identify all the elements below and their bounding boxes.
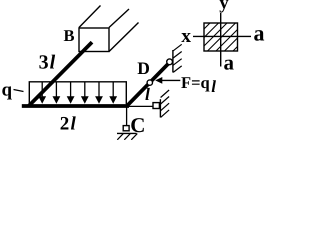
load arrow 5 xyxy=(95,82,103,104)
ground hatch 1 xyxy=(117,134,123,140)
distributed load q outline xyxy=(29,82,126,104)
force F arrowhead xyxy=(155,77,162,84)
ground hatch 2 xyxy=(124,134,130,140)
ground hatch 3 xyxy=(131,134,137,140)
upper wall hatch 1 xyxy=(173,44,182,51)
svg-text:x: x xyxy=(181,26,191,47)
box B perspective line top-left xyxy=(79,6,101,28)
lower wall hatch 3 xyxy=(161,103,170,111)
upper wall line xyxy=(172,50,174,73)
pin circle at upper wall xyxy=(167,59,173,65)
upper wall hatch 3 xyxy=(173,59,182,65)
cross-section square xyxy=(177,14,270,56)
x axis line xyxy=(193,35,251,37)
pin square on tie rod xyxy=(153,103,159,109)
lower wall hatch 1 xyxy=(161,90,170,98)
lower wall hatch 2 xyxy=(161,97,170,105)
upper wall hatch 4 xyxy=(173,66,182,73)
load arrow 6 xyxy=(109,82,117,104)
beam 2l (horizontal member) xyxy=(22,104,129,108)
svg-text:l: l xyxy=(145,84,150,104)
hinge circle D xyxy=(147,80,152,85)
tie rod to lower wall xyxy=(129,105,154,107)
lower wall hatch 4 xyxy=(161,110,170,118)
load arrow 1 xyxy=(38,82,46,104)
pin square at C xyxy=(123,126,129,131)
svg-text:a: a xyxy=(254,20,265,45)
force F arrow shaft xyxy=(161,79,180,81)
member D (inclined member to wall pin) xyxy=(127,63,169,106)
load arrow 3 xyxy=(67,82,75,104)
load arrow 4 xyxy=(81,82,89,104)
box B perspective line top-right xyxy=(109,9,129,28)
load arrow 2 xyxy=(53,82,61,104)
box B perspective line bottom-right xyxy=(109,23,138,52)
svg-text:2l: 2l xyxy=(60,113,77,134)
svg-text:q: q xyxy=(2,79,13,100)
fixed support box B xyxy=(79,28,109,52)
svg-text:C: C xyxy=(130,113,145,137)
svg-text:B: B xyxy=(64,26,75,45)
cross-section hatch lines xyxy=(177,14,270,56)
beam 3l (inclined member to B) xyxy=(29,42,92,106)
ground line at C xyxy=(117,132,137,134)
svg-text:a: a xyxy=(224,51,235,75)
upper wall hatch 2 xyxy=(173,52,182,59)
vertical member to C xyxy=(126,106,128,126)
y axis line xyxy=(220,13,222,67)
lower wall line xyxy=(159,99,161,117)
svg-text:D: D xyxy=(137,58,150,78)
svg-text:y: y xyxy=(219,0,229,14)
q leader line xyxy=(14,90,24,92)
svg-text:3l: 3l xyxy=(39,52,56,74)
